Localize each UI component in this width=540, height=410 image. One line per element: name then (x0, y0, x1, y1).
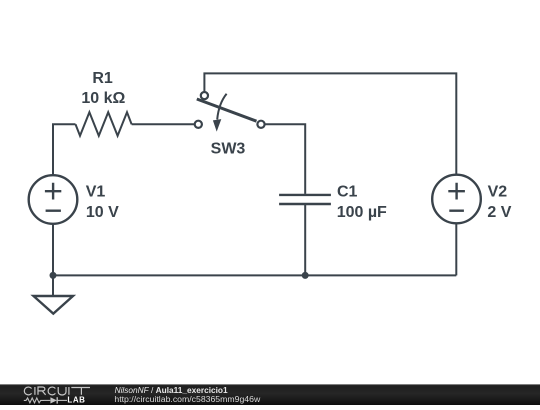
CircuitLab logo (24, 387, 90, 405)
capacitor C1 (279, 195, 331, 204)
voltage source V2 (432, 175, 481, 224)
svg-text:100 µF: 100 µF (337, 204, 387, 221)
svg-text:R1: R1 (92, 70, 113, 87)
svg-text:V1: V1 (86, 183, 106, 200)
svg-text:C1: C1 (337, 184, 358, 201)
svg-text:http://circuitlab.com/c58365mm: http://circuitlab.com/c58365mm9g46w (114, 394, 261, 404)
wire: junction to ground symbol (52, 275, 54, 295)
ground (34, 296, 74, 314)
wire: V1 bottom to ground junction (52, 224, 54, 276)
wire: SW3 right terminal to capacitor top (265, 124, 306, 194)
wire: capacitor bottom to bottom rail (304, 205, 306, 275)
node: ground junction dot (50, 272, 57, 279)
bottom rail wire (53, 274, 456, 276)
footer attribution text (114, 385, 261, 404)
svg-text:10 kΩ: 10 kΩ (81, 90, 125, 107)
node: capacitor junction dot (302, 272, 309, 279)
voltage source V1 (29, 175, 78, 224)
wire: SW3 top terminal up and top rail to V2 (204, 73, 456, 174)
wire: V1 top to resistor left lead (53, 124, 76, 175)
switch SW3 (195, 92, 265, 132)
svg-text:SW3: SW3 (211, 141, 246, 158)
svg-text:2 V: 2 V (487, 204, 511, 221)
wire: R1 to SW3 left terminal (132, 123, 195, 125)
svg-text:LAB: LAB (67, 396, 85, 405)
svg-text:V2: V2 (488, 184, 508, 201)
wire: V2 bottom to bottom rail (455, 223, 457, 275)
svg-text:10 V: 10 V (86, 204, 119, 221)
resistor R1 (76, 112, 132, 136)
footer bar (0, 384, 540, 405)
